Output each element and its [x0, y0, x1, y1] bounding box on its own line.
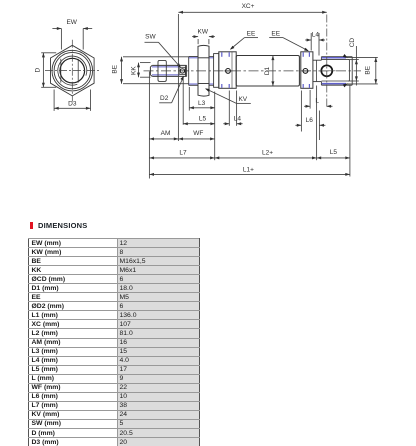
cylinder tube	[236, 56, 299, 87]
front view horizontal centerline	[45, 70, 100, 72]
svg-text:L6: L6	[306, 117, 314, 124]
set screw circle	[180, 69, 184, 73]
rod nut	[158, 60, 166, 81]
dimensions table	[28, 238, 200, 446]
front head cover	[219, 52, 236, 89]
svg-text:KW: KW	[198, 29, 209, 36]
svg-text:L7: L7	[179, 150, 187, 157]
svg-text:EW: EW	[66, 19, 77, 26]
rear port screw	[303, 69, 308, 74]
boss thread blue bands	[322, 57, 346, 59]
svg-text:AM: AM	[161, 130, 171, 137]
svg-text:L5: L5	[330, 149, 338, 156]
svg-text:L3: L3	[198, 100, 206, 107]
svg-text:EE: EE	[247, 30, 256, 37]
svg-text:L: L	[315, 98, 319, 105]
svg-text:BE: BE	[111, 64, 118, 73]
rod end faces	[185, 65, 187, 76]
svg-text:SW: SW	[145, 34, 156, 41]
head inner edge line	[231, 52, 233, 89]
svg-text:KK: KK	[130, 66, 137, 75]
rod end wrench flats SW	[180, 67, 185, 74]
svg-text:L5: L5	[199, 115, 207, 122]
svg-text:XC+: XC+	[242, 3, 255, 10]
rear port thread ticks	[302, 52, 304, 57]
front view vertical centerline	[71, 40, 73, 102]
svg-text:KV: KV	[238, 96, 247, 103]
pivot horizontal centerline	[319, 70, 336, 72]
front port screw	[226, 69, 231, 74]
svg-text:D1: D1	[264, 66, 271, 75]
thread end arrows	[343, 54, 348, 58]
pivot hole CD	[321, 65, 332, 76]
boss inner face	[348, 60, 350, 81]
svg-text:L4: L4	[312, 32, 320, 39]
rod thread blue lines	[152, 66, 180, 68]
svg-text:D: D	[35, 68, 42, 73]
nose thread visible right of nut	[209, 56, 214, 58]
nut chamfer circle	[52, 50, 93, 91]
hex nut front view	[51, 45, 95, 96]
bore circle	[60, 58, 85, 83]
rear head cover	[301, 52, 313, 89]
mounting nut side view	[198, 45, 209, 96]
rear boss with female thread	[313, 59, 322, 61]
rod flats seen through bore	[60, 59, 62, 83]
thread outer circle	[54, 52, 90, 88]
pivot vertical centerline	[326, 15, 328, 108]
svg-text:EE: EE	[271, 30, 280, 37]
threaded nose BE	[188, 57, 190, 86]
svg-text:WF: WF	[193, 130, 203, 137]
svg-text:CD: CD	[349, 38, 356, 48]
nut facet lines	[198, 57, 209, 59]
svg-text:BE: BE	[365, 65, 372, 74]
thread arc 3/4 circle	[58, 56, 87, 85]
front port thread ticks	[221, 52, 223, 57]
nose thread blue lines	[189, 57, 198, 59]
svg-text:L1+: L1+	[243, 166, 254, 173]
shoulder flange disc	[214, 54, 219, 88]
svg-text:L2+: L2+	[262, 150, 273, 157]
svg-text:L4: L4	[234, 115, 242, 122]
dimensions table header	[30, 222, 33, 229]
svg-text:D3: D3	[68, 101, 77, 108]
piston rod	[152, 64, 186, 66]
svg-text:D2: D2	[160, 95, 169, 102]
boss bore lines	[322, 59, 350, 61]
main horizontal centerline	[144, 70, 362, 72]
